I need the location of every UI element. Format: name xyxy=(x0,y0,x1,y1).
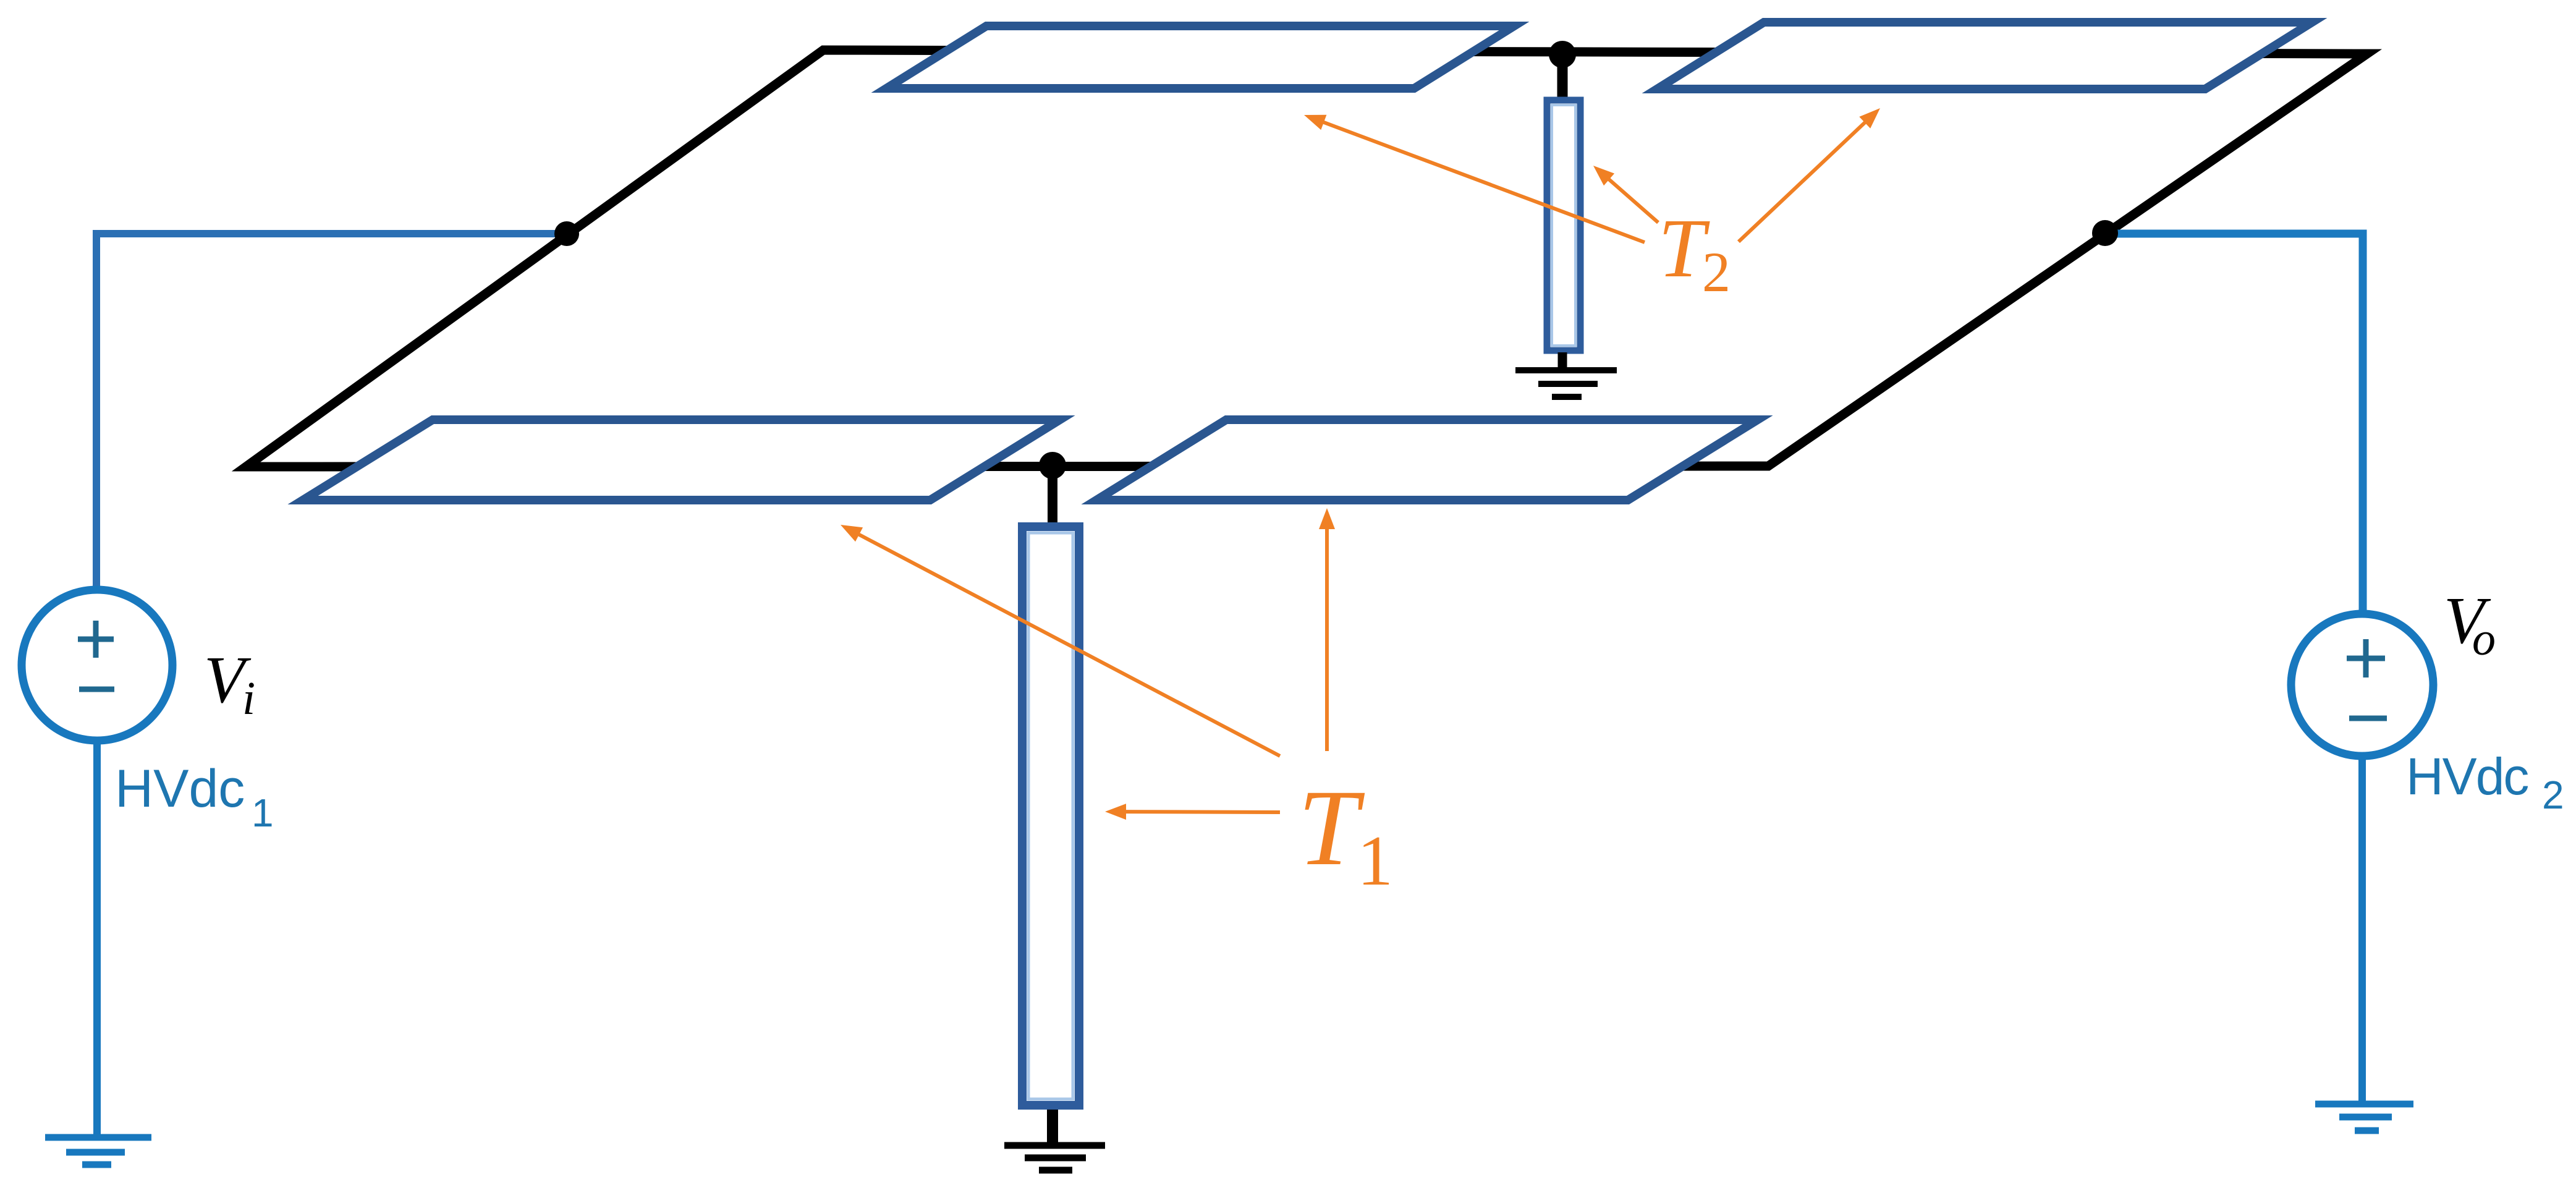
wire from HVdc1 to node A xyxy=(96,234,559,588)
node B (junction dot on right diagonal) xyxy=(2092,220,2118,246)
ground (right, blue) xyxy=(2315,1104,2413,1131)
patch P4 (bottom-right microstrip patch) xyxy=(1096,420,1758,500)
arrow from T1 label to patch P3 xyxy=(841,525,1280,756)
ground (below T2, black) xyxy=(1515,370,1617,397)
svg-text:2: 2 xyxy=(1702,240,1731,304)
svg-text:T: T xyxy=(1298,768,1365,888)
stub T1 (shorted stub rectangle) xyxy=(1022,527,1079,1105)
wire HVdc2 to ground xyxy=(2358,755,2366,1104)
arrow from T2 label to patch P1 xyxy=(1304,115,1645,242)
ground (below T1, black) xyxy=(1004,1145,1105,1170)
voltage source HVdc1 xyxy=(22,590,172,741)
svg-text:2: 2 xyxy=(2542,773,2564,817)
ground (left, blue) xyxy=(45,1137,151,1165)
wire stub T2 to ground xyxy=(1558,352,1567,370)
wire stub T1 to ground xyxy=(1047,1110,1058,1144)
patch P2 (top-right microstrip patch) xyxy=(1657,22,2312,89)
arrow from T2 label to patch P2 xyxy=(1739,108,1880,242)
svg-text:HVdc: HVdc xyxy=(115,759,245,818)
svg-text:o: o xyxy=(2472,613,2496,665)
node C (junction dot between top patches) xyxy=(1549,41,1576,68)
patch P1 (top-left microstrip patch) xyxy=(886,26,1514,88)
ground plane outline (black parallelogram) xyxy=(246,50,2367,467)
wire node C to stub T2 xyxy=(1557,54,1568,102)
svg-text:1: 1 xyxy=(1357,822,1393,901)
patch P3 (bottom-left microstrip patch) xyxy=(303,420,1060,500)
svg-text:1: 1 xyxy=(252,791,274,835)
wire from HVdc2 to node B xyxy=(2114,234,2363,611)
wire node D to stub T1 xyxy=(1048,465,1057,527)
arrow from T1 label to stub T1 xyxy=(1105,804,1280,820)
arrow from T1 label to patch P4 xyxy=(1319,508,1335,751)
wire HVdc1 to ground xyxy=(93,740,101,1137)
svg-text:i: i xyxy=(242,673,255,724)
arrow from T2 label to stub T2 xyxy=(1593,166,1658,223)
svg-text:HVdc: HVdc xyxy=(2406,747,2528,805)
node D (junction dot between bottom patches) xyxy=(1039,452,1066,479)
node A (junction dot on left diagonal) xyxy=(554,221,579,246)
stub T2 (shorted stub rectangle) xyxy=(1547,100,1580,350)
voltage source HVdc2 xyxy=(2291,614,2433,756)
